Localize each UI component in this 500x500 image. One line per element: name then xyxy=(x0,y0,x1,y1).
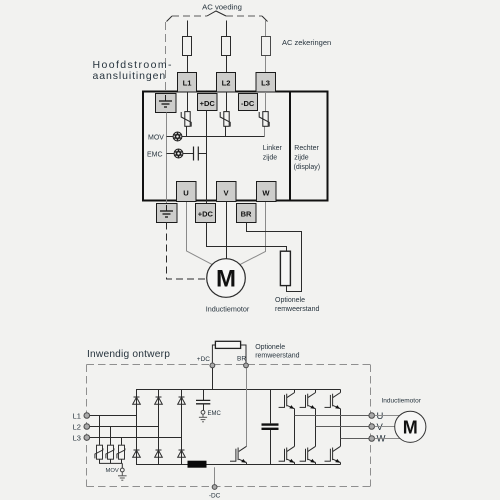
IGBT Q6 xyxy=(325,446,341,462)
svg-text:MOV: MOV xyxy=(148,135,164,142)
wire L2 inside block xyxy=(226,92,227,137)
svg-text:L2: L2 xyxy=(222,79,231,88)
wire phase 2 to fuse xyxy=(226,21,228,73)
wire BR node to resistor xyxy=(241,345,246,363)
svg-text:U: U xyxy=(183,189,189,198)
fuse F2 xyxy=(222,37,231,56)
node U xyxy=(369,413,375,419)
capacitor DC bus xyxy=(262,425,279,429)
terminal BR xyxy=(237,204,257,223)
wire BR node to brake IGBT xyxy=(246,368,248,446)
svg-text:L1: L1 xyxy=(183,79,193,88)
svg-text:BR: BR xyxy=(241,210,252,219)
diode D6 xyxy=(178,450,186,457)
svg-text:V: V xyxy=(377,422,384,433)
wire DC- rail xyxy=(136,464,341,466)
IGBT Q4 xyxy=(279,446,295,462)
svg-text:M: M xyxy=(216,266,236,293)
wire EMC to screw xyxy=(203,404,205,411)
varistor RV4 xyxy=(95,445,103,459)
svg-text:L3: L3 xyxy=(73,434,81,443)
wire V to motor xyxy=(375,426,395,428)
svg-text:AC voeding: AC voeding xyxy=(202,3,242,12)
svg-text:L2: L2 xyxy=(73,423,81,432)
ground EMC xyxy=(199,414,207,422)
diode D2 xyxy=(155,397,163,404)
wire EMC to capacitor xyxy=(167,153,207,155)
rectifier leg 1 xyxy=(136,390,138,465)
terminal PE top with ground box xyxy=(156,94,177,113)
inverter leg W xyxy=(340,390,342,465)
wire L2 phase xyxy=(90,426,159,428)
wire bus cap stubs xyxy=(270,390,272,465)
divider display section xyxy=(289,92,291,201)
varistor RV2 xyxy=(220,112,230,127)
IGBT Q5 xyxy=(300,446,316,462)
terminal L2 xyxy=(217,73,236,93)
wire W to motor xyxy=(240,202,266,265)
wire PE inside block xyxy=(166,113,168,204)
wire MOV tap 2 xyxy=(110,427,112,445)
wire output U xyxy=(295,415,370,417)
ground symbol bottom xyxy=(160,205,173,217)
svg-text:aansluitingen: aansluitingen xyxy=(93,70,167,82)
wire MOV tap 3 xyxy=(121,438,123,445)
svg-text:-DC: -DC xyxy=(241,99,255,108)
svg-text:-DC: -DC xyxy=(209,493,221,500)
wire MOV common xyxy=(167,136,265,138)
wire L1 inside block xyxy=(187,92,188,137)
svg-text:Inductiemotor: Inductiemotor xyxy=(206,304,250,313)
svg-text:EMC: EMC xyxy=(147,152,163,159)
brake resistor R1 xyxy=(280,251,290,285)
terminal W xyxy=(257,182,277,202)
svg-text:Inwendig ontwerp: Inwendig ontwerp xyxy=(87,349,170,360)
rectifier leg 3 xyxy=(181,390,183,465)
svg-text:Optionele: Optionele xyxy=(275,297,305,304)
wire L3 inside block xyxy=(265,92,266,137)
inverter leg U xyxy=(294,390,296,465)
wire MOV tap 1 xyxy=(99,416,101,445)
MOV screw bottom xyxy=(120,468,124,472)
node V xyxy=(369,424,375,430)
fuse F3 xyxy=(262,37,271,56)
diode D4 xyxy=(133,450,141,457)
wire phase 3 to fuse xyxy=(265,21,267,73)
svg-text:L1: L1 xyxy=(73,412,81,421)
wire U to motor xyxy=(375,415,400,417)
IGBT Q1 xyxy=(279,393,295,409)
svg-text:EMC: EMC xyxy=(208,411,222,417)
svg-text:BR: BR xyxy=(237,356,246,363)
svg-text:zijde: zijde xyxy=(294,154,309,161)
svg-text:Linker: Linker xyxy=(263,145,283,152)
enclosure dashed border xyxy=(87,365,371,487)
fuse F1 xyxy=(183,37,192,56)
svg-text:remweerstand: remweerstand xyxy=(255,353,299,360)
svg-text:AC zekeringen: AC zekeringen xyxy=(282,38,331,47)
node +DC xyxy=(210,363,215,368)
wire +DC node to resistor xyxy=(212,345,215,363)
rectifier leg 2 xyxy=(158,390,160,465)
svg-text:Rechter: Rechter xyxy=(294,145,319,152)
wire -DC tap xyxy=(214,467,216,484)
svg-text:+DC: +DC xyxy=(200,99,216,108)
wire U to motor xyxy=(187,202,213,265)
varistor RV3 xyxy=(259,112,269,127)
svg-text:U: U xyxy=(377,411,384,422)
terminal PE bottom with ground box xyxy=(157,204,178,223)
EMC ground screw xyxy=(174,149,183,158)
terminal -DC top xyxy=(239,94,258,111)
svg-text:remweerstand: remweerstand xyxy=(275,306,319,313)
main drive block xyxy=(143,92,328,201)
svg-text:+DC: +DC xyxy=(197,356,210,363)
varistor RV6 xyxy=(117,445,125,459)
terminal L1 xyxy=(178,73,197,93)
wire EMC stub xyxy=(203,390,205,401)
wire MOV common bottom xyxy=(100,459,123,468)
svg-text:W: W xyxy=(262,189,270,198)
diode D5 xyxy=(155,450,163,457)
node -DC xyxy=(212,485,217,490)
svg-text:(display): (display) xyxy=(294,164,320,171)
node BR xyxy=(244,363,249,368)
ground MOV xyxy=(118,472,127,480)
IGBT Q7 brake xyxy=(230,446,247,464)
node L3 xyxy=(84,435,90,441)
wire +DC to brake resistor xyxy=(207,223,287,252)
wire ground to motor dashed xyxy=(167,223,207,280)
wire +DC node to DC rail xyxy=(212,368,214,390)
svg-text:MOV: MOV xyxy=(106,468,119,474)
diode D3 xyxy=(178,397,186,404)
node L2 xyxy=(84,424,90,430)
wire +DC internal xyxy=(206,111,208,204)
terminal +DC top xyxy=(198,94,218,111)
wire phase 1 to fuse xyxy=(187,21,189,73)
terminal U xyxy=(177,182,197,202)
svg-text:L3: L3 xyxy=(261,79,270,88)
wire output V xyxy=(316,426,370,428)
svg-text:+DC: +DC xyxy=(198,210,214,219)
ground symbol top xyxy=(159,95,172,107)
inverter leg V xyxy=(315,390,317,465)
varistor RV1 xyxy=(181,112,191,127)
IGBT Q3 xyxy=(325,393,341,409)
wire DC+ rail xyxy=(136,389,341,391)
wire L3 phase xyxy=(90,437,182,439)
motor M2 xyxy=(395,411,426,442)
diode D1 xyxy=(133,397,141,404)
node W xyxy=(369,436,375,442)
svg-text:Inductiemotor: Inductiemotor xyxy=(382,398,422,405)
wire output W xyxy=(341,438,370,440)
brace AC supply xyxy=(172,15,262,17)
IGBT Q2 xyxy=(300,393,316,409)
capacitor EMC xyxy=(194,147,199,161)
svg-text:Optionele: Optionele xyxy=(255,344,285,351)
wire L1 phase xyxy=(90,415,137,417)
shunt resistor black xyxy=(188,461,206,467)
terminal V xyxy=(217,182,237,202)
node L1 xyxy=(84,413,90,419)
wire V to motor xyxy=(226,202,228,259)
terminal L3 xyxy=(256,73,276,93)
brake resistor R2 horizontal xyxy=(215,341,240,348)
varistor RV5 xyxy=(106,445,114,459)
terminal +DC bottom xyxy=(196,204,216,223)
wire BR to brake resistor xyxy=(247,223,302,292)
wire PE dashed from supply to ground terminal xyxy=(165,22,167,93)
svg-text:zijde: zijde xyxy=(263,154,278,161)
MOV ground screw xyxy=(173,132,182,141)
capacitor EMC bottom xyxy=(196,400,210,403)
EMC screw bottom xyxy=(201,410,205,414)
wire W to motor xyxy=(375,438,400,440)
motor M1 xyxy=(207,259,246,298)
svg-text:M: M xyxy=(403,417,418,437)
